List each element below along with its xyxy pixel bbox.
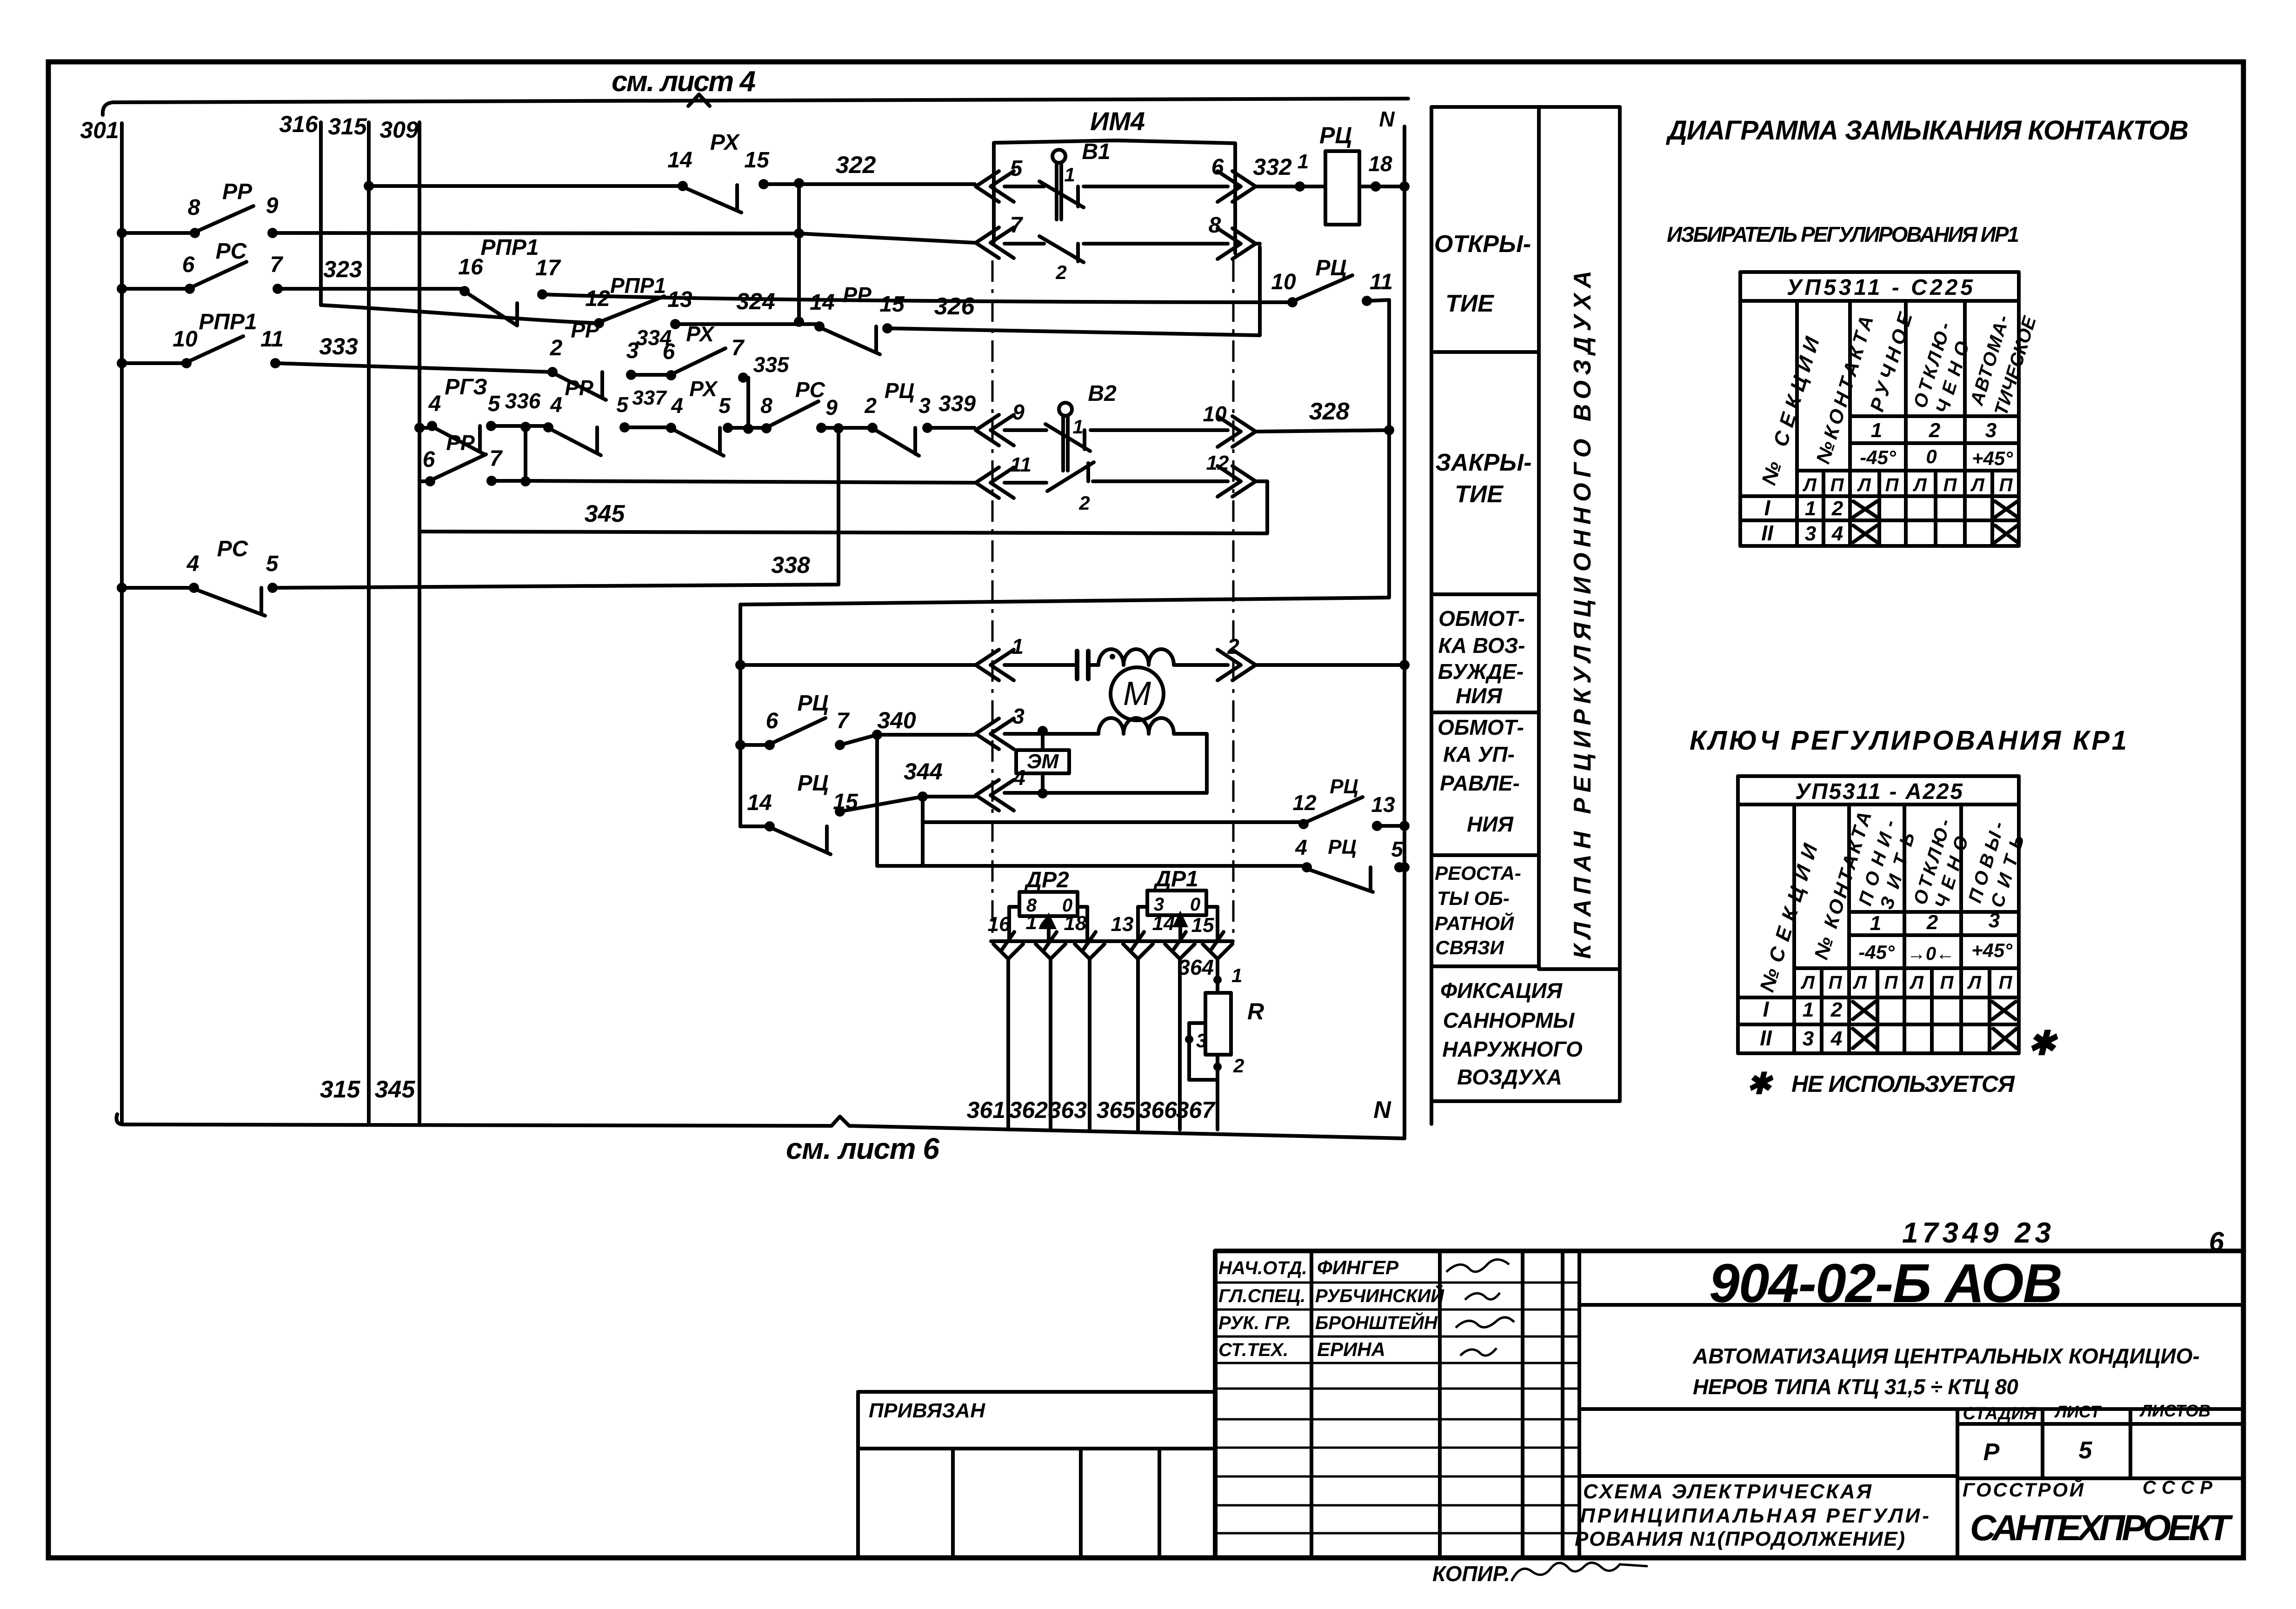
contact РПР1 10-11	[181, 336, 280, 368]
svg-text:3: 3	[1985, 419, 1997, 442]
svg-text:12: 12	[1292, 791, 1317, 815]
svg-text:ТИЕ: ТИЕ	[1445, 290, 1494, 317]
labels 4 РС 5 338	[186, 537, 810, 578]
labels 8 РР 9	[188, 180, 279, 220]
names column	[1315, 1257, 1444, 1360]
labels 4 РГЗ 5 336	[428, 375, 541, 416]
contact РС 8-9	[761, 401, 826, 433]
svg-text:4: 4	[428, 392, 441, 416]
annex Привязан	[858, 1392, 1215, 1558]
svg-text:НЕ ИСПОЛЬЗУЕТСЯ: НЕ ИСПОЛЬЗУЕТСЯ	[1791, 1071, 2016, 1097]
tick marks at ДР terminals	[1001, 932, 1224, 951]
table КР1 row II	[1760, 1026, 2016, 1050]
svg-text:3: 3	[1196, 1030, 1207, 1051]
arrow pin 8	[1209, 213, 1256, 259]
wire bus 316	[319, 122, 323, 305]
table ИР1 numbers row	[1871, 419, 1997, 442]
wire 11 to drop	[1367, 300, 1394, 598]
svg-text:ОТКРЫ-: ОТКРЫ-	[1434, 231, 1531, 258]
table КР1 row I	[1763, 997, 2016, 1021]
svg-text:6: 6	[663, 339, 675, 364]
svg-text:СХЕМА ЭЛЕКТРИЧЕСКАЯ: СХЕМА ЭЛЕКТРИЧЕСКАЯ	[1583, 1480, 1872, 1503]
arrow pin 9	[976, 400, 1025, 445]
svg-text:✱: ✱	[2028, 1025, 2058, 1062]
svg-text:РР: РР	[571, 318, 599, 342]
svg-text:ДИАГРАММА ЗАМЫКАНИЯ КОНТАКТОВ: ДИАГРАММА ЗАМЫКАНИЯ КОНТАКТОВ	[1665, 115, 2189, 146]
asterisk after table	[2028, 1025, 2058, 1062]
svg-text:РС: РС	[217, 537, 249, 561]
wire 5 to N	[1399, 862, 1410, 872]
labels 8 РС 9	[760, 378, 838, 419]
svg-text:ДР1: ДР1	[1153, 867, 1198, 891]
svg-text:II: II	[1760, 1026, 1772, 1050]
svg-text:+45°: +45°	[1972, 447, 2013, 469]
contact РС 6-7	[185, 262, 283, 294]
svg-text:1: 1	[1072, 416, 1083, 438]
svg-text:324: 324	[736, 288, 775, 314]
arrow pin 12	[1206, 452, 1256, 497]
svg-text:2: 2	[1926, 911, 1938, 934]
svg-text:ОБМОТ-: ОБМОТ-	[1438, 606, 1525, 631]
relay coil РЦ	[1319, 122, 1359, 225]
svg-text:НИЯ: НИЯ	[1456, 684, 1503, 708]
svg-text:ФИКСАЦИЯ: ФИКСАЦИЯ	[1440, 978, 1563, 1003]
svg-text:10: 10	[1271, 270, 1296, 294]
wiper arrow ДР2	[1041, 912, 1057, 940]
svg-text:361: 361	[967, 1097, 1005, 1123]
svg-text:ГЛ.СПЕЦ.: ГЛ.СПЕЦ.	[1218, 1286, 1305, 1306]
rheostat ДР2	[1009, 868, 1087, 940]
capacitor	[1077, 651, 1115, 679]
svg-text:-45°: -45°	[1860, 446, 1897, 468]
wire bus 301	[120, 123, 124, 1123]
svg-text:15: 15	[833, 790, 859, 814]
svg-text:+45°: +45°	[1971, 939, 2013, 961]
labels 6 РХ 7 335	[663, 322, 790, 377]
svg-text:14: 14	[747, 791, 772, 815]
doc title line1	[1692, 1344, 2200, 1368]
svg-text:ДР2: ДР2	[1024, 868, 1069, 892]
svg-text:ВОЗДУХА: ВОЗДУХА	[1457, 1065, 1562, 1089]
svg-text:315: 315	[320, 1076, 361, 1103]
svg-text:БУЖДЕ-: БУЖДЕ-	[1438, 659, 1524, 684]
svg-text:0: 0	[1190, 894, 1200, 915]
svg-text:РС: РС	[795, 378, 825, 402]
svg-text:363: 363	[1048, 1097, 1087, 1123]
svg-text:7: 7	[837, 709, 850, 733]
svg-text:СТАДИЯ: СТАДИЯ	[1963, 1404, 2037, 1423]
svg-text:4: 4	[186, 552, 200, 576]
doc title line2	[1693, 1375, 2018, 1399]
svg-text:13: 13	[667, 287, 692, 312]
svg-text:В1: В1	[1082, 140, 1110, 164]
title Диаграмма замыкания контактов	[1665, 115, 2189, 146]
svg-text:РР: РР	[446, 431, 475, 455]
svg-text:339: 339	[938, 392, 976, 416]
wire РЦ14-15 row	[740, 791, 975, 826]
doc code 904-02-6 АОВ	[1709, 1253, 2063, 1314]
svg-text:13: 13	[1371, 792, 1395, 817]
svg-text:САНТЕХПРОЕКТ: САНТЕХПРОЕКТ	[1970, 1507, 2233, 1548]
svg-text:РР: РР	[565, 376, 593, 400]
svg-text:365: 365	[1097, 1097, 1136, 1123]
svg-text:1: 1	[1064, 164, 1075, 186]
svg-text:II: II	[1761, 521, 1774, 545]
svg-text:8: 8	[188, 195, 200, 220]
arrow pin 5	[976, 156, 1023, 202]
wire takeoff 365	[1123, 944, 1153, 1130]
svg-text:РАТНОЙ: РАТНОЙ	[1435, 911, 1514, 934]
svg-text:3: 3	[1989, 909, 2000, 932]
wire motor row	[740, 660, 1410, 670]
solenoid ЭМ	[1016, 734, 1069, 793]
labels 10 РПР1 11 333	[173, 310, 358, 359]
arrow pin 6	[1211, 155, 1256, 202]
svg-text:16: 16	[988, 913, 1011, 936]
table КР1 numbers row	[1870, 909, 2000, 935]
svg-text:ЛИСТОВ: ЛИСТОВ	[2139, 1401, 2211, 1420]
svg-text:Л: Л	[1967, 972, 1982, 993]
svg-text:2: 2	[1055, 261, 1066, 283]
table КР1 ЛП row	[1800, 972, 2012, 993]
contact РР 8-9	[190, 206, 278, 238]
svg-text:338: 338	[771, 552, 810, 578]
svg-text:7: 7	[1010, 213, 1024, 238]
svg-text:323: 323	[323, 256, 362, 282]
contact РХ 14-15	[678, 179, 769, 213]
svg-text:РХ: РХ	[689, 377, 718, 401]
svg-text:11: 11	[1010, 453, 1032, 476]
wire coil to N	[1359, 152, 1410, 192]
svg-text:РЦ: РЦ	[797, 771, 828, 796]
node 345 label	[375, 1076, 416, 1103]
svg-text:Р: Р	[1983, 1439, 2000, 1466]
svg-text:ИМ4: ИМ4	[1090, 106, 1145, 136]
contact РР 2-3	[547, 367, 636, 400]
wire bus 309-345	[418, 122, 421, 1122]
labels 4 РЦ 5	[1295, 835, 1404, 861]
svg-text:ЗАКРЫ-: ЗАКРЫ-	[1436, 449, 1532, 476]
arrow pin 1	[976, 634, 1024, 680]
svg-text:2: 2	[1830, 998, 1843, 1021]
svg-text:340: 340	[877, 707, 916, 733]
vertical 339-1056	[524, 427, 527, 481]
stage cells	[1963, 1401, 2210, 1466]
svg-text:15: 15	[1191, 914, 1214, 937]
node 301 label	[80, 117, 119, 143]
contact РЦ 2-3	[867, 423, 932, 456]
contact РР 14-15	[814, 321, 892, 354]
title Избиратель регулирования ИР1	[1667, 222, 2019, 246]
svg-text:В2: В2	[1088, 381, 1117, 406]
svg-text:6: 6	[1211, 155, 1224, 180]
svg-text:1: 1	[1805, 497, 1816, 520]
svg-text:14: 14	[667, 148, 692, 173]
bottom boundary line	[116, 1114, 1404, 1138]
svg-text:РГЗ: РГЗ	[445, 375, 487, 399]
svg-text:7: 7	[270, 253, 284, 277]
svg-text:3: 3	[1805, 522, 1816, 545]
contact РПР1 16-17	[459, 286, 547, 326]
wire row 324-326	[321, 247, 1260, 335]
contact РЦ 10-11	[1287, 275, 1372, 307]
svg-text:N: N	[1379, 107, 1395, 131]
wire row PP	[117, 228, 975, 243]
svg-text:3: 3	[1803, 1027, 1814, 1050]
svg-text:12: 12	[1206, 452, 1229, 474]
svg-text:Л: Л	[1802, 475, 1817, 495]
svg-text:СВЯЗИ: СВЯЗИ	[1435, 937, 1504, 958]
svg-text:5: 5	[488, 392, 501, 416]
svg-text:РЦ: РЦ	[1330, 775, 1358, 798]
svg-text:2: 2	[1078, 492, 1090, 514]
contact РПР1 12-13	[594, 296, 680, 329]
wire РЦ6-7 row	[740, 730, 1207, 793]
svg-text:R: R	[1247, 998, 1264, 1024]
svg-text:РЕОСТА-: РЕОСТА-	[1435, 862, 1521, 884]
svg-text:5: 5	[1010, 156, 1023, 181]
svg-text:Л: Л	[1852, 972, 1867, 993]
svg-text:РУК. ГР.: РУК. ГР.	[1218, 1313, 1291, 1333]
svg-text:РЦ: РЦ	[797, 691, 828, 716]
svg-text:П: П	[1829, 972, 1843, 993]
sub title Схема	[1575, 1480, 1929, 1550]
svg-text:1: 1	[1298, 150, 1309, 173]
svg-text:4: 4	[550, 392, 562, 417]
resistor R	[1178, 955, 1264, 1130]
org cell Госстрой СССР	[1963, 1477, 2212, 1501]
wire takeoff 361	[993, 944, 1023, 1130]
svg-text:12: 12	[585, 286, 610, 311]
svg-text:✱: ✱	[1746, 1067, 1774, 1100]
svg-text:10: 10	[1203, 402, 1227, 426]
svg-text:14: 14	[1152, 912, 1175, 935]
wire 328	[1257, 398, 1389, 432]
svg-text:Л: Л	[1857, 475, 1871, 495]
centerline left	[992, 260, 994, 940]
svg-text:ФИНГЕР: ФИНГЕР	[1317, 1257, 1399, 1278]
svg-text:Л: Л	[1970, 475, 1985, 495]
svg-text:366: 366	[1138, 1097, 1178, 1123]
svg-text:1: 1	[1871, 419, 1882, 442]
svg-text:336: 336	[505, 389, 541, 413]
svg-text:17: 17	[535, 256, 561, 280]
svg-text:904-02-Б АОВ: 904-02-Б АОВ	[1709, 1253, 2063, 1314]
cell Обмотка управления	[1437, 715, 1524, 836]
svg-text:13: 13	[1111, 913, 1134, 936]
wire В2 loop to 345	[420, 481, 1267, 533]
table КР1 rotated headers	[1756, 809, 2029, 995]
svg-text:ЭМ: ЭМ	[1027, 750, 1059, 773]
label 345 row	[585, 500, 626, 527]
cell Реостаты обратной связи	[1435, 862, 1521, 958]
svg-text:15: 15	[744, 148, 770, 173]
svg-text:П: П	[1830, 475, 1844, 495]
svg-text:344: 344	[904, 758, 942, 785]
wire row 333	[117, 358, 748, 429]
svg-text:15: 15	[879, 292, 905, 317]
svg-text:Л: Л	[1800, 972, 1815, 993]
svg-text:СТ.ТЕХ.: СТ.ТЕХ.	[1218, 1340, 1288, 1360]
svg-text:РЦ: РЦ	[1315, 256, 1346, 280]
motor М	[1111, 667, 1164, 720]
label см.лист4	[612, 66, 756, 98]
svg-text:11: 11	[1370, 270, 1393, 294]
svg-text:10: 10	[173, 327, 198, 352]
title block frame	[1215, 1251, 2243, 1558]
svg-text:337: 337	[632, 386, 667, 409]
wire row 323	[117, 284, 1292, 302]
labels 6 РР 7	[423, 431, 503, 472]
contact РС 4-5	[189, 583, 278, 616]
wire В1 sec2	[1005, 242, 1228, 246]
svg-text:1: 1	[1870, 912, 1881, 935]
svg-text:РПР1: РПР1	[480, 235, 539, 260]
svg-text:2: 2	[1233, 1055, 1244, 1077]
svg-text:-45°: -45°	[1858, 941, 1895, 963]
table КР1 angles row	[1858, 939, 2013, 964]
svg-text:6: 6	[766, 709, 779, 733]
table КР1 header УП5311-А225	[1795, 779, 1963, 804]
svg-text:315: 315	[328, 113, 367, 140]
switch В1	[1039, 140, 1111, 283]
svg-text:ОБМОТ-: ОБМОТ-	[1437, 715, 1524, 739]
svg-text:5: 5	[1391, 837, 1404, 861]
svg-text:РПР1: РПР1	[610, 273, 666, 298]
svg-text:см. лист 6: см. лист 6	[786, 1132, 939, 1165]
svg-text:РЦ: РЦ	[1328, 836, 1356, 858]
svg-text:П: П	[1999, 475, 2013, 495]
wire 13 to N	[1377, 821, 1410, 831]
svg-text:РХ: РХ	[710, 130, 740, 155]
svg-text:1: 1	[1231, 964, 1242, 986]
labels 14 РХ 15 322	[667, 130, 876, 179]
svg-text:345: 345	[375, 1076, 416, 1103]
svg-text:М: М	[1123, 675, 1151, 712]
svg-text:322: 322	[836, 152, 876, 179]
contact РЦ 4-5	[1302, 862, 1404, 892]
svg-text:9: 9	[266, 193, 279, 218]
control winding	[1098, 718, 1174, 734]
svg-text:17: 17	[1026, 911, 1050, 934]
labels 6 РЦ 7 340	[766, 691, 916, 733]
svg-text:КА ВОЗ-: КА ВОЗ-	[1438, 633, 1525, 658]
centerline right	[1232, 260, 1235, 940]
svg-text:РЦ: РЦ	[885, 379, 914, 403]
cell Закрытие	[1436, 449, 1532, 508]
labels 12 РЦ 13	[1292, 775, 1395, 817]
svg-text:ПРИНЦИПИАЛЬНАЯ РЕГУЛИ-: ПРИНЦИПИАЛЬНАЯ РЕГУЛИ-	[1580, 1504, 1929, 1527]
svg-text:см. лист 4: см. лист 4	[612, 66, 756, 98]
labels 361..367	[967, 1097, 1216, 1123]
wire 344 drop to РЦ12-13	[923, 797, 1304, 865]
wire 332	[1253, 150, 1325, 192]
svg-text:2: 2	[1929, 419, 1941, 442]
org cell САНТЕХПРОЕКТ	[1970, 1507, 2233, 1548]
svg-text:РР: РР	[843, 283, 872, 307]
arrow pin 7	[976, 213, 1024, 258]
svg-text:Л: Л	[1912, 475, 1927, 495]
wire bus 315	[367, 122, 371, 1122]
wire drop 322->326	[794, 183, 804, 327]
labels 2 РР 3 334	[550, 318, 672, 363]
labels 2 РЦ 3 339	[864, 379, 976, 418]
node 315 labels	[320, 113, 367, 1103]
arrow pin 4	[976, 765, 1025, 811]
svg-text:НАЧ.ОТД.: НАЧ.ОТД.	[1218, 1258, 1307, 1278]
table ИР1 header УП5311-С225	[1787, 275, 1973, 300]
svg-text:ЕРИНА: ЕРИНА	[1317, 1338, 1385, 1360]
labels 4 РР 5 337	[550, 376, 667, 417]
wire row 1285	[735, 598, 1389, 826]
svg-text:ИЗБИРАТЕЛЬ РЕГУЛИРОВАНИЯ ИР1: ИЗБИРАТЕЛЬ РЕГУЛИРОВАНИЯ ИР1	[1667, 222, 2019, 246]
labels 12 РПР1 13 324	[585, 273, 775, 314]
svg-text:БРОНШТЕЙН: БРОНШТЕЙН	[1315, 1311, 1438, 1333]
bus under ДР	[991, 939, 1233, 943]
svg-text:309: 309	[379, 117, 419, 143]
svg-text:5: 5	[266, 552, 279, 576]
wiper arrow ДР1	[1172, 911, 1188, 940]
table ИР1	[1740, 272, 2019, 546]
wire drop 8 to 326	[1256, 242, 1260, 246]
labels 16 17 18 13 14 15	[988, 911, 1214, 937]
wire takeoff 366	[1165, 944, 1195, 1130]
svg-text:316: 316	[279, 111, 319, 137]
svg-text:4: 4	[671, 393, 683, 418]
svg-text:Л: Л	[1909, 972, 1924, 993]
svg-text:П: П	[1940, 972, 1954, 993]
svg-text:УП5311 - А225: УП5311 - А225	[1795, 779, 1963, 804]
svg-text:РЦ: РЦ	[1319, 122, 1352, 148]
svg-text:П: П	[1885, 475, 1899, 495]
table ИР1 angles row	[1860, 445, 2013, 469]
contact РХ 6-7	[666, 348, 748, 383]
svg-text:6: 6	[182, 253, 195, 277]
switch В2	[1045, 381, 1117, 514]
svg-text:I: I	[1764, 496, 1771, 520]
table ИР1 row I	[1764, 496, 2017, 520]
labels 4 РХ 5	[671, 377, 731, 418]
svg-text:2: 2	[864, 393, 877, 418]
svg-text:НЕРОВ ТИПА КТЦ 31,5 ÷ КТЦ: НЕРОВ ТИПА КТЦ 31,5 ÷ КТЦ 80	[1693, 1375, 2018, 1399]
svg-text:9: 9	[825, 395, 838, 419]
svg-text:11: 11	[260, 327, 284, 352]
svg-text:РПР1: РПР1	[199, 310, 257, 334]
svg-text:367: 367	[1176, 1097, 1216, 1123]
svg-text:1: 1	[1012, 634, 1024, 658]
svg-text:4: 4	[1013, 765, 1025, 790]
svg-text:332: 332	[1253, 154, 1292, 180]
node 316 label	[279, 111, 319, 137]
table ИР1 rotated headers	[1757, 309, 2041, 488]
svg-text:4: 4	[1295, 835, 1307, 859]
arrow pin 11	[976, 453, 1032, 498]
svg-text:П: П	[1943, 475, 1957, 495]
svg-text:9: 9	[1012, 400, 1025, 424]
note не используется	[1746, 1067, 2015, 1100]
svg-text:4: 4	[1830, 1027, 1842, 1050]
contact РХ 4-5	[666, 423, 733, 456]
wire bus N	[1403, 126, 1406, 1138]
arrow pin 10	[1203, 402, 1256, 447]
svg-text:ТЫ ОБ-: ТЫ ОБ-	[1437, 887, 1510, 909]
svg-text:2: 2	[550, 336, 563, 360]
contact РР 4-5 (337)	[543, 422, 630, 455]
svg-text:5: 5	[2079, 1437, 2093, 1464]
svg-text:3: 3	[918, 393, 931, 418]
svg-text:14: 14	[810, 290, 834, 315]
title Ключ регулирования КР1	[1690, 725, 2127, 756]
